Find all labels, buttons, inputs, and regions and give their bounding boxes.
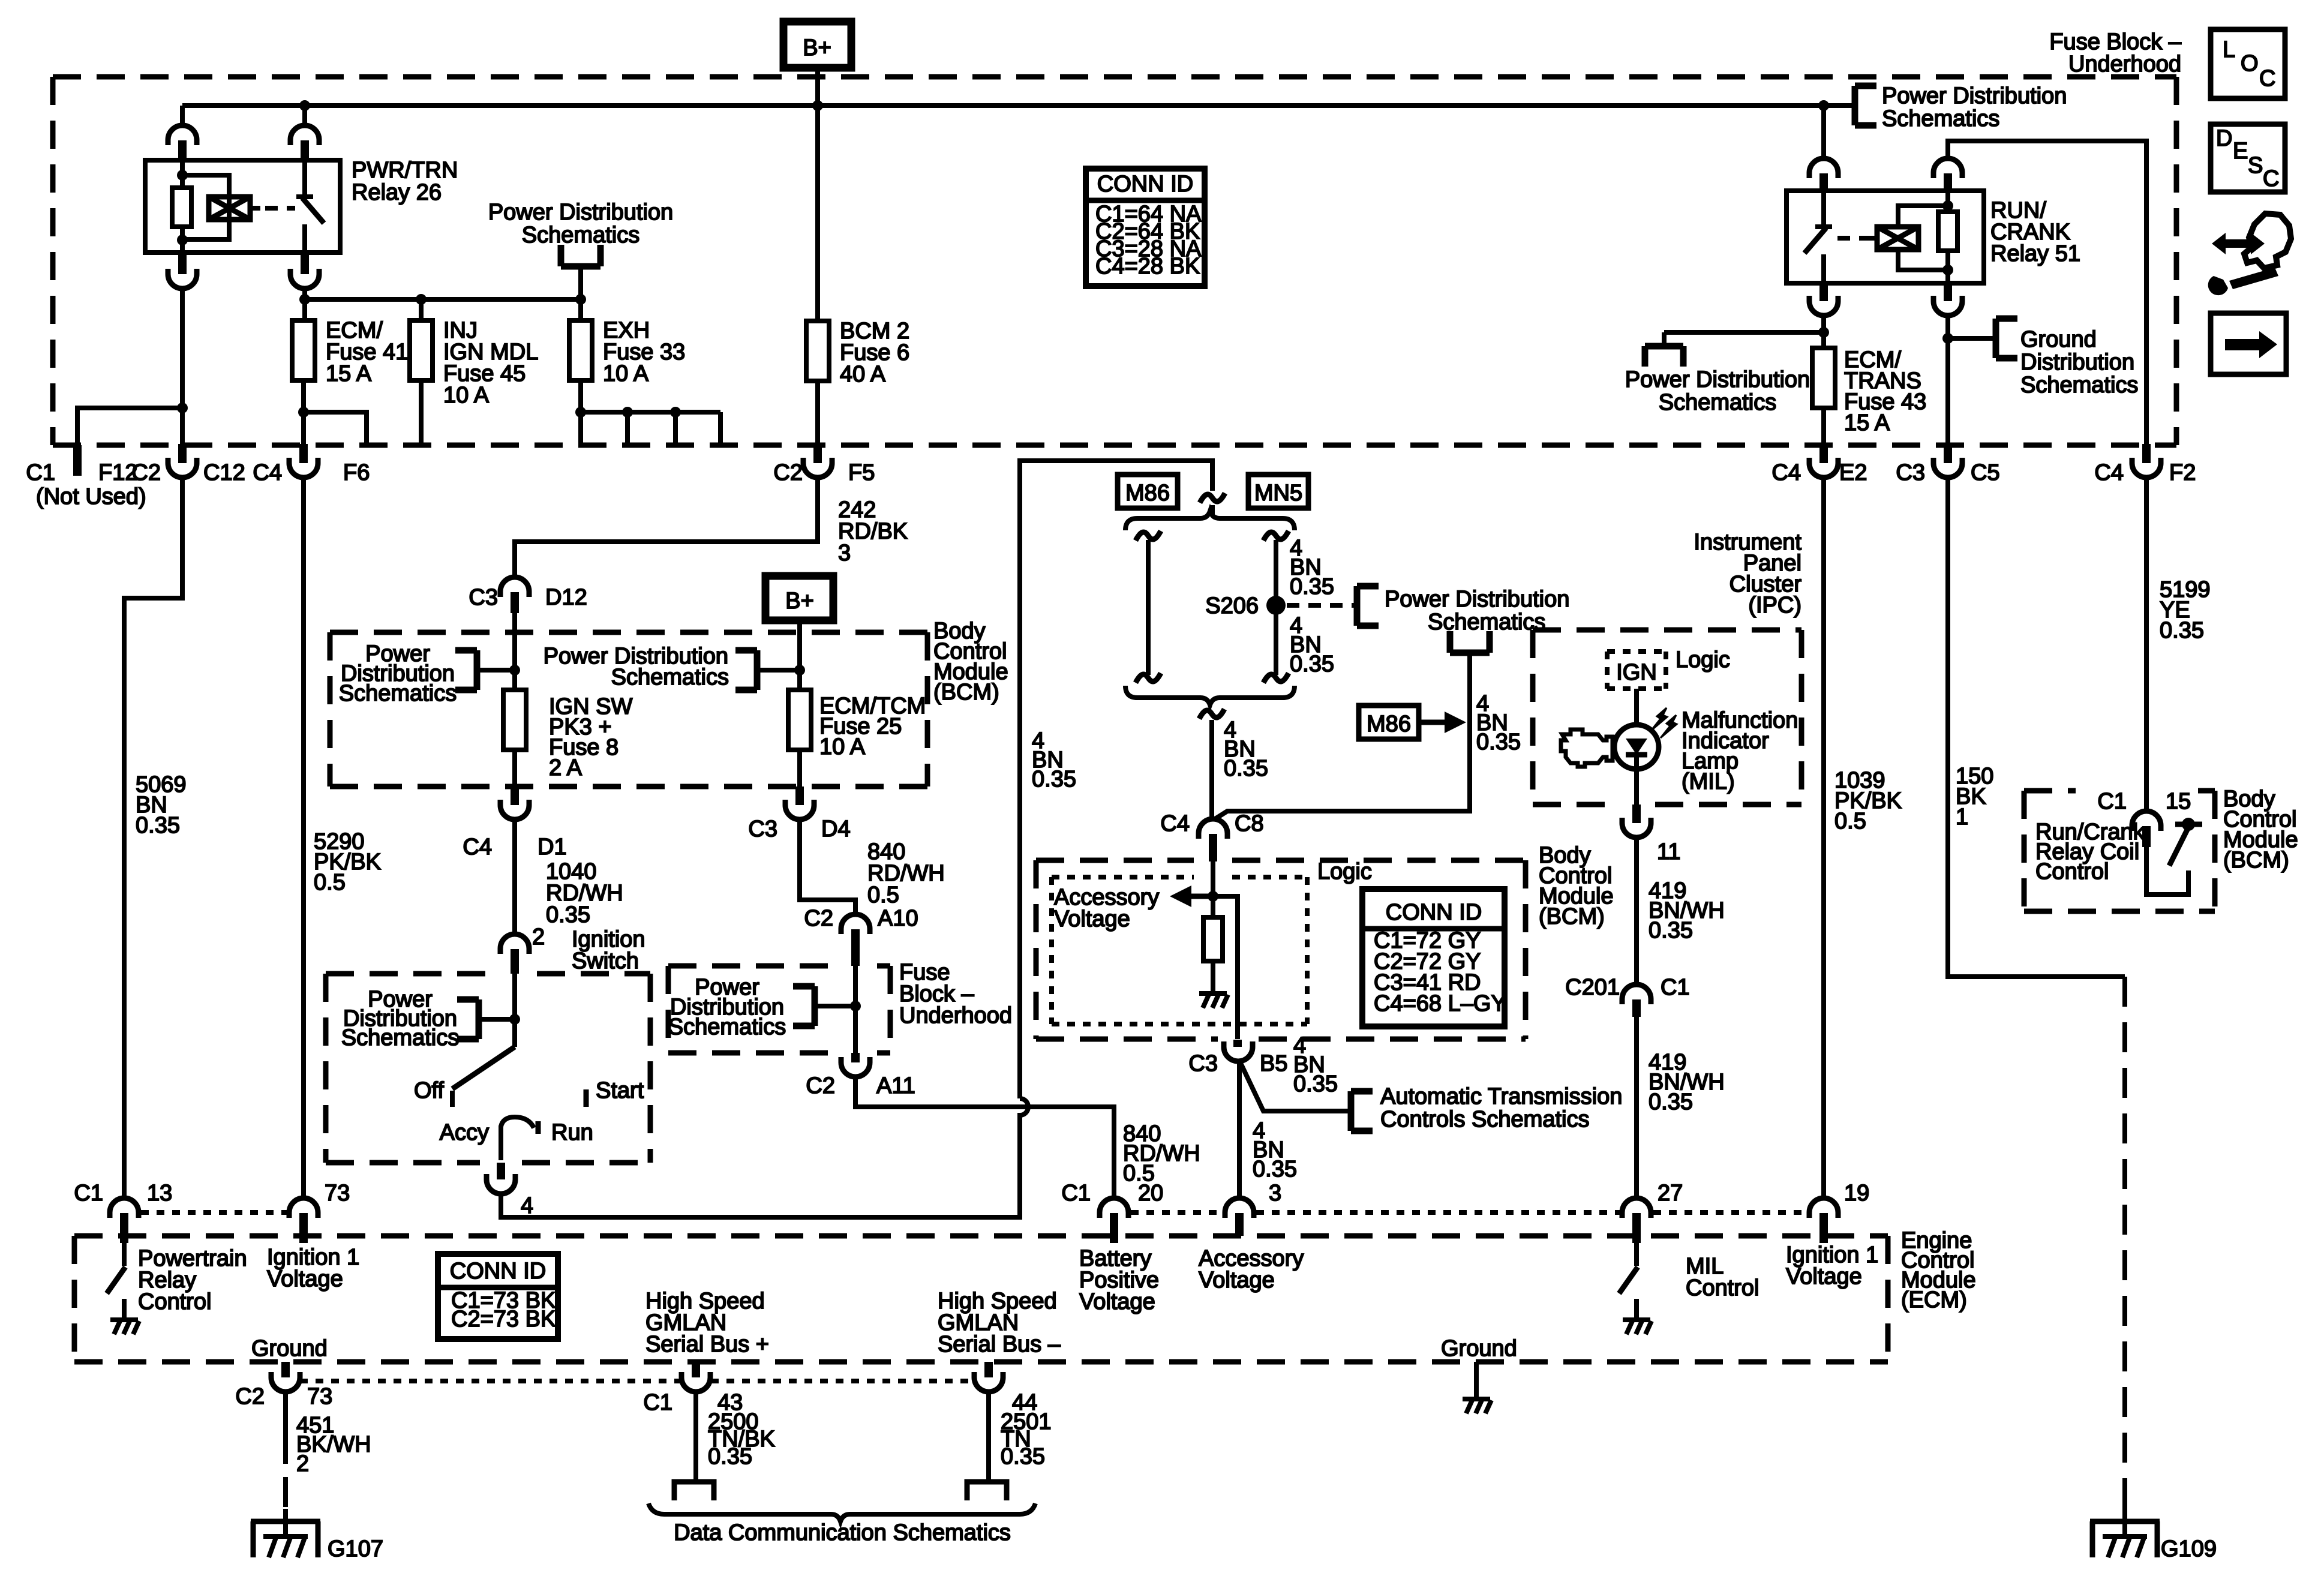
- svg-text:0.35: 0.35: [708, 1444, 752, 1469]
- pin stub fuseblock A10: [851, 929, 860, 966]
- svg-text:15 A: 15 A: [1844, 410, 1890, 436]
- box M86: [1118, 475, 1178, 508]
- label C2 A10: [804, 906, 918, 931]
- label RUN/CRANK Relay 51: [1990, 198, 2080, 266]
- label circuit 1039 PK/BK 0.5: [1834, 768, 1902, 834]
- wire fork to fuse43 junction: [1664, 330, 1824, 335]
- destination fork power distribution fuse43: [1645, 346, 1683, 367]
- label Ignition Switch: [572, 927, 645, 974]
- svg-text:C4: C4: [463, 834, 492, 860]
- node fuse33 comb junction1: [575, 407, 586, 418]
- wire harness bundle down to C8: [1209, 720, 1214, 819]
- ground MIL control: [1623, 1320, 1652, 1334]
- svg-text:C2: C2: [806, 1073, 835, 1098]
- svg-text:C4=28 BK: C4=28 BK: [1095, 254, 1200, 279]
- label Power Distribution Schematics S206: [1385, 587, 1569, 635]
- wire harness left leg: [1146, 540, 1151, 675]
- svg-text:0.35: 0.35: [546, 902, 590, 927]
- wire fuse33 outputs comb: [581, 299, 720, 445]
- CONN ID table fuse block: [1086, 169, 1205, 286]
- svg-text:0.35: 0.35: [1224, 756, 1268, 781]
- label circuit 150 BK 1: [1956, 764, 1993, 830]
- pin stub ignition switch pin2: [511, 949, 519, 974]
- wire break to top brace: [1210, 505, 1215, 515]
- svg-text:B5: B5: [1260, 1051, 1287, 1076]
- wire fuse8 to box bottom: [512, 750, 517, 786]
- svg-text:10 A: 10 A: [603, 361, 649, 386]
- svg-text:(BCM): (BCM): [2223, 848, 2289, 873]
- node relay51 coil bottom junction: [1942, 265, 1953, 275]
- connector cup C3 D12: [500, 577, 529, 597]
- ECM module dashed box: [74, 1236, 1888, 1362]
- label C1 43: [643, 1390, 743, 1415]
- svg-text:Schematics: Schematics: [339, 681, 457, 706]
- wire bus to power dist fork: [1824, 103, 1855, 108]
- svg-text:Switch: Switch: [572, 948, 639, 974]
- node fuse33 comb junction2: [622, 407, 633, 418]
- destination fork power distribution S206: [1357, 586, 1379, 626]
- icon arrow box: [2211, 313, 2286, 374]
- svg-text:(BCM): (BCM): [1539, 904, 1605, 929]
- pin stub relay51 switch top: [1819, 173, 1828, 191]
- node fuse33 comb junction3: [670, 407, 681, 418]
- label C2 F5: [773, 460, 875, 485]
- svg-text:10 A: 10 A: [443, 383, 490, 408]
- CONN ID table BCM: [1362, 889, 1506, 1026]
- box MN5: [1248, 475, 1308, 508]
- ECM connector dotted row: [141, 1210, 1807, 1215]
- svg-text:C: C: [2263, 166, 2279, 191]
- svg-text:3: 3: [1269, 1181, 1281, 1206]
- label 4 BN 0.35 upper right: [1290, 536, 1334, 599]
- connector cup ignition switch pin4: [487, 1174, 515, 1194]
- fuse F41 ECM 15A: [292, 320, 315, 380]
- connector cup C2 A10: [841, 914, 870, 934]
- label 4 BN 0.35 B5 branch: [1293, 1033, 1338, 1097]
- svg-text:2 A: 2 A: [549, 755, 582, 781]
- svg-text:Run: Run: [551, 1120, 593, 1145]
- connector cup relay26 coil bottom: [168, 269, 197, 289]
- svg-text:27: 27: [1658, 1181, 1683, 1206]
- label ECM/TCM Fuse 25 10 A: [819, 694, 926, 760]
- wire relay51 coil top feed: [1948, 141, 2146, 448]
- connector cup ignition switch pin2: [500, 934, 529, 954]
- pin stub fuseblock C12: [178, 444, 187, 463]
- wire ignition accessory feed to riser: [501, 1194, 1013, 1217]
- svg-text:MN5: MN5: [1254, 481, 1302, 506]
- label 4 BN 0.35 center: [1224, 718, 1268, 781]
- svg-text:C4=68 L–GY: C4=68 L–GY: [1374, 991, 1506, 1016]
- pin stub ECM pin20: [1110, 1213, 1118, 1243]
- connector cup relay26 switch top: [290, 125, 319, 145]
- lightning arrows MIL: [1651, 708, 1677, 738]
- label C3 B5: [1188, 1051, 1287, 1076]
- connector cup C2 A11: [841, 1057, 870, 1077]
- label circuit 419 BN/WH 0.35 b: [1649, 1050, 1725, 1115]
- label Automatic Transmission Controls Schematics: [1380, 1084, 1622, 1132]
- label circuit 840 RD/WH 0.5 a: [867, 839, 945, 908]
- svg-text:0.5: 0.5: [1834, 809, 1866, 834]
- connector cup C2 73 bottom: [271, 1372, 300, 1392]
- label circuit 5290 PK/BK 0.5: [314, 829, 381, 895]
- svg-text:Data Communication Schematics: Data Communication Schematics: [674, 1520, 1011, 1545]
- svg-text:0.35: 0.35: [1293, 1071, 1338, 1097]
- pin stub fuseblock A11: [851, 1053, 860, 1062]
- destination fork automatic transmission: [1351, 1091, 1373, 1131]
- arrow accessory voltage: [1170, 885, 1213, 907]
- svg-text:0.35: 0.35: [1476, 730, 1521, 755]
- label Power Distribution Schematics ignsw: [341, 987, 459, 1050]
- wire GMLAN minus to terminator: [986, 1392, 991, 1479]
- svg-text:Schematics: Schematics: [1882, 106, 1999, 131]
- svg-text:C2: C2: [235, 1384, 265, 1409]
- svg-text:Distribution: Distribution: [2020, 350, 2134, 375]
- svg-text:Voltage: Voltage: [1079, 1289, 1155, 1314]
- pin stub relay51 switch bottom: [1819, 283, 1828, 301]
- svg-text:B+: B+: [785, 589, 814, 614]
- connector cup C3 C5: [1933, 458, 1962, 478]
- svg-text:C2: C2: [773, 460, 803, 485]
- connector cup ECM C1 20: [1100, 1198, 1128, 1218]
- ground powertrain relay control: [110, 1320, 139, 1334]
- svg-text:C3: C3: [1188, 1051, 1218, 1076]
- brace bottom harness: [1125, 686, 1295, 705]
- solenoid relay26 with X: [209, 197, 260, 220]
- label IGN SW PK3 + Fuse 8 2 A: [549, 694, 632, 781]
- node fuse bus at INJ fuse45: [416, 294, 427, 305]
- svg-text:(IPC): (IPC): [1748, 593, 1801, 618]
- svg-text:C1: C1: [1661, 975, 1690, 1000]
- svg-text:Serial Bus –: Serial Bus –: [938, 1332, 1061, 1357]
- brace data communication: [648, 1503, 1035, 1521]
- svg-text:C12: C12: [203, 460, 245, 485]
- fuse F33 EXH 10A: [569, 320, 592, 380]
- ECM bottom dotted row: [300, 1379, 974, 1383]
- svg-text:Logic: Logic: [1676, 647, 1730, 673]
- connector cup ECM C1 13: [110, 1198, 139, 1218]
- wire fuse41 to F6 pin: [301, 380, 306, 448]
- svg-text:C1: C1: [1061, 1181, 1091, 1206]
- pin stub ECM pin73 bottom: [281, 1362, 290, 1377]
- label C3 D4: [748, 816, 850, 842]
- svg-text:Control: Control: [138, 1289, 212, 1314]
- pin stub ECM pin13: [120, 1213, 128, 1243]
- svg-text:4: 4: [521, 1193, 533, 1218]
- contact Accy-Run wiper arc: [501, 1117, 538, 1160]
- connector cup C1 15: [2132, 811, 2161, 831]
- destination fork power distribution EXH: [561, 245, 600, 266]
- label circuit 2501 TN 0.35: [1001, 1409, 1052, 1469]
- svg-text:Off: Off: [414, 1078, 444, 1103]
- splice break harness left bottom: [1136, 673, 1161, 683]
- wire S206 branch down to C8 elbow: [1216, 653, 1470, 818]
- connector cup C1 44: [974, 1372, 1003, 1392]
- svg-text:Control: Control: [1686, 1275, 1759, 1301]
- connector cup C1 43: [681, 1372, 710, 1392]
- svg-text:C3: C3: [748, 816, 777, 842]
- svg-text:F5: F5: [848, 460, 875, 485]
- connector cup relay26 coil top: [168, 125, 197, 145]
- svg-text:C4: C4: [1160, 811, 1190, 836]
- wire accessory riser to top elbow: [1020, 461, 1212, 1098]
- node B+ bus junction: [812, 100, 823, 111]
- svg-text:(MIL): (MIL): [1682, 769, 1735, 794]
- wire 419 BN/WH C201 to ECM pin27: [1634, 1017, 1639, 1197]
- wire dashed 150 BK to G109: [2122, 977, 2127, 1503]
- wire B+2 to fuse25: [797, 620, 802, 690]
- svg-text:0.35: 0.35: [1290, 652, 1334, 677]
- icon vehicle wrench: [2208, 214, 2291, 295]
- destination fork power distribution fuse25: [735, 650, 757, 690]
- label Body Control Module BCM right: [2223, 786, 2298, 873]
- wire stem into G109: [2122, 1500, 2127, 1536]
- pin stub ignition switch pin4: [497, 1163, 505, 1179]
- svg-text:Controls Schematics: Controls Schematics: [1380, 1107, 1589, 1132]
- B+ power symbol: [783, 22, 851, 68]
- switch relay26 contact and arm: [296, 161, 324, 253]
- pin stub ECM pin3: [1235, 1213, 1244, 1236]
- fuse block underhood dashed border: [53, 77, 2176, 445]
- label circuit 419 BN/WH 0.35 a: [1649, 878, 1725, 943]
- pin stub BCM pin15: [2142, 826, 2151, 847]
- wire 451 BK/WH to G107: [283, 1392, 288, 1509]
- label C1 20: [1061, 1181, 1163, 1206]
- svg-text:15 A: 15 A: [326, 361, 372, 386]
- wire 5069 BN C12 to ECM pin13: [124, 478, 182, 1197]
- wire fuse25 to box bottom: [797, 750, 802, 786]
- svg-text:11: 11: [1657, 839, 1680, 864]
- svg-text:C5: C5: [1971, 460, 2000, 485]
- label 4 BN 0.35 lower right: [1290, 613, 1334, 677]
- label circuit 1040 RD/WH 0.35: [546, 859, 623, 927]
- icon LOC box: [2211, 29, 2285, 98]
- pin stub ECM pin73: [299, 1213, 308, 1243]
- label Power Distribution Schematics bus: [1882, 83, 2067, 131]
- node fuse43 feed junction: [1818, 327, 1829, 338]
- resistor relay26 coil: [172, 188, 191, 227]
- pin stub ECM pin19: [1819, 1213, 1828, 1243]
- wire B+ stem to bus: [815, 68, 820, 112]
- svg-text:CONN ID: CONN ID: [1386, 900, 1482, 925]
- wire 1039 PK/BK E2 to ECM pin19: [1821, 478, 1826, 1197]
- pin stub BCM C8: [1209, 834, 1217, 861]
- label Battery Positive Voltage: [1079, 1246, 1159, 1314]
- label Run/Crank Relay Coil Control: [2035, 819, 2145, 884]
- wire ignition switch common: [512, 974, 517, 1047]
- pin stub fuseblock E2: [1819, 444, 1828, 463]
- pin stub fuseblock C5: [1944, 444, 1952, 463]
- arrow M86 pointer: [1419, 712, 1466, 733]
- destination fork power distribution small box: [793, 986, 815, 1026]
- wire D12 to fuse8: [512, 613, 517, 690]
- splice break harness right bottom: [1263, 673, 1289, 683]
- svg-text:Power Distribution: Power Distribution: [1882, 83, 2067, 109]
- wire ECM ground right stub: [1474, 1362, 1479, 1398]
- relay K51 RUN/CRANK box: [1786, 191, 1984, 283]
- fuse F45 INJ IGN MDL 10A: [410, 320, 433, 380]
- svg-text:20: 20: [1138, 1181, 1163, 1206]
- pin stub relay26 switch top: [301, 140, 309, 161]
- fuse F25 ECM/TCM 10A: [788, 690, 811, 750]
- pin stub relay26 switch bottom: [301, 253, 309, 274]
- label C4 E2: [1771, 460, 1867, 485]
- terminator GMLAN minus: [967, 1482, 1007, 1500]
- pin stub relay51 coil top: [1944, 173, 1952, 191]
- svg-text:2: 2: [296, 1451, 309, 1476]
- node relay26 coil-F12 junction: [177, 403, 188, 413]
- label C4 D1: [463, 834, 566, 860]
- svg-text:CONN ID: CONN ID: [1097, 172, 1193, 197]
- label C2 73 bottom: [235, 1384, 332, 1409]
- svg-text:Control: Control: [2035, 859, 2109, 884]
- wire hop accessory riser over A11 wire: [1013, 1098, 1028, 1217]
- connector cup ECM pin27: [1622, 1198, 1651, 1218]
- wire branch to F12 not used: [77, 408, 182, 448]
- svg-text:(Not Used): (Not Used): [36, 484, 146, 509]
- svg-text:Schematics: Schematics: [611, 665, 729, 690]
- node fuse41 output junction: [298, 407, 309, 418]
- label Body Control Module BCM fusebox: [933, 619, 1008, 705]
- svg-text:19: 19: [1844, 1181, 1869, 1206]
- label Fuse Block - Underhood small: [899, 960, 1012, 1028]
- pin stub fuseblock F6: [299, 444, 308, 463]
- relay K26 PWR/TRN box: [145, 160, 340, 253]
- pin stub BCM D4: [795, 786, 804, 805]
- node small box junction: [850, 1001, 861, 1011]
- svg-text:C1: C1: [643, 1390, 672, 1415]
- svg-text:S: S: [2248, 153, 2263, 178]
- label circuit 5199 YE 0.35: [2160, 577, 2211, 643]
- connector cup ECM pin19: [1809, 1198, 1838, 1218]
- wire main battery bus: [182, 103, 1824, 108]
- node fuse25 feed junction: [794, 665, 805, 676]
- label High Speed GMLAN Serial Bus minus: [938, 1289, 1061, 1357]
- wire fuse45 risers: [419, 299, 424, 445]
- svg-text:Power Distribution: Power Distribution: [1385, 587, 1569, 612]
- wire stem into G107: [283, 1509, 288, 1536]
- node fuse8 feed junction: [509, 665, 520, 676]
- label EXH Fuse 33 10 A: [603, 318, 685, 386]
- switch ignition wiper arm to Off: [452, 1047, 515, 1107]
- svg-text:(ECM): (ECM): [1901, 1287, 1967, 1313]
- wire fuse feed bus: [305, 297, 581, 302]
- label C4 F6: [253, 460, 370, 485]
- svg-text:A10: A10: [878, 906, 918, 931]
- ground BCM logic: [1199, 993, 1228, 1008]
- wire S206 dashes to fork: [1287, 603, 1355, 608]
- destination fork power distribution S206 down: [1450, 631, 1490, 653]
- wire resistor to ground: [1211, 961, 1215, 992]
- label Ignition 1 Voltage right: [1786, 1242, 1878, 1289]
- label C3 D12: [469, 585, 587, 610]
- node relay26 coil top junction: [177, 170, 188, 181]
- node bus at relay51: [1818, 100, 1829, 111]
- svg-text:C3: C3: [1896, 460, 1925, 485]
- label C3 C5: [1896, 460, 1999, 485]
- svg-text:Voltage: Voltage: [1786, 1264, 1862, 1289]
- svg-text:2: 2: [532, 924, 545, 950]
- terminator GMLAN plus: [674, 1482, 714, 1500]
- label Power Distribution Schematics fuse43: [1625, 367, 1810, 415]
- splice break bottom: [1199, 709, 1224, 719]
- wire 419 BN/WH pin11 to C201: [1634, 837, 1639, 984]
- node fuse bus at ECM fuse41: [299, 294, 310, 305]
- wire accessory branch right and down to B5: [1213, 896, 1238, 1039]
- pin stub relay51 coil bottom: [1944, 283, 1952, 301]
- svg-text:S206: S206: [1205, 593, 1259, 619]
- node fuse bus at EXH fuse33: [575, 294, 586, 305]
- label High Speed GMLAN Serial Bus plus: [645, 1289, 769, 1357]
- svg-text:D12: D12: [545, 585, 587, 610]
- wire harness right leg: [1274, 540, 1278, 675]
- label C1 13: [74, 1181, 172, 1206]
- switch relay51 contact and arm: [1804, 191, 1832, 283]
- label Powertrain Relay Control: [138, 1246, 247, 1314]
- svg-text:Schematics: Schematics: [1428, 610, 1545, 635]
- connector cup relay51 coil top: [1933, 158, 1962, 178]
- icon check engine: [1561, 730, 1613, 767]
- relay26 coil loop wiring: [182, 161, 229, 253]
- ground ECM case: [1463, 1399, 1491, 1413]
- label ECM/TRANS Fuse 43 15 A: [1844, 347, 1926, 436]
- label C1 F12 (Not Used): [26, 460, 146, 509]
- svg-text:Schematics: Schematics: [341, 1025, 459, 1050]
- svg-text:F6: F6: [343, 460, 370, 485]
- wire bus drop to relay26 pin1: [180, 106, 185, 125]
- splice break harness left top: [1136, 531, 1161, 541]
- CONN ID table ECM: [438, 1254, 558, 1339]
- node relay26 pin2 bus junction: [299, 100, 310, 111]
- svg-text:Schematics: Schematics: [522, 223, 639, 248]
- resistor BCM logic pulldown: [1203, 917, 1223, 961]
- wire fork to A10 wire: [815, 1004, 855, 1008]
- svg-text:15: 15: [2166, 789, 2191, 814]
- connector cup relay51 coil bottom: [1933, 296, 1962, 316]
- wire fork to fuse25 junction: [757, 668, 800, 673]
- wire fork stem fuse43: [1662, 332, 1667, 346]
- fuse F8 IGN SW 2A: [503, 690, 526, 750]
- label 4 BN 0.35 left: [1032, 728, 1076, 792]
- destination fork power distribution fuse8: [455, 650, 477, 690]
- svg-text:0.35: 0.35: [136, 813, 180, 838]
- wire 5290 PK/BK F6 to ECM pin73: [301, 478, 306, 1197]
- pin stub ECM pin27: [1632, 1213, 1641, 1243]
- wire 242 RD/BK from F5 to D12: [515, 478, 818, 577]
- svg-text:C8: C8: [1235, 811, 1264, 836]
- svg-text:E2: E2: [1839, 460, 1867, 485]
- IPC dashed box: [1533, 630, 1801, 804]
- svg-text:Schematics: Schematics: [2020, 373, 2138, 398]
- svg-text:D: D: [2216, 126, 2232, 151]
- svg-text:0.35: 0.35: [1649, 1089, 1693, 1115]
- svg-text:C1: C1: [2097, 789, 2127, 814]
- wire relay51 actuator dashes: [1837, 236, 1867, 241]
- label C1 15 bcm: [2097, 789, 2191, 814]
- svg-text:F2: F2: [2169, 460, 2196, 485]
- fuse block small box dashed border: [668, 966, 890, 1053]
- connector cup C3 B5: [1224, 1041, 1253, 1061]
- node accessory voltage junction: [1208, 891, 1218, 902]
- wire GMLAN plus to terminator: [693, 1392, 698, 1479]
- wire branch fuse41 to spare pin: [304, 412, 367, 445]
- label circuit 242 RD/BK 3: [838, 497, 908, 566]
- contact Start tick: [584, 1089, 589, 1107]
- BCM logic dotted box: [1052, 877, 1307, 1024]
- connector cup C4 E2: [1809, 458, 1838, 478]
- label Power Distribution Schematics fuse25: [544, 644, 729, 690]
- wire B5 to ECM pin3: [1237, 1061, 1242, 1197]
- wire MIL lamp to pin11: [1634, 769, 1639, 804]
